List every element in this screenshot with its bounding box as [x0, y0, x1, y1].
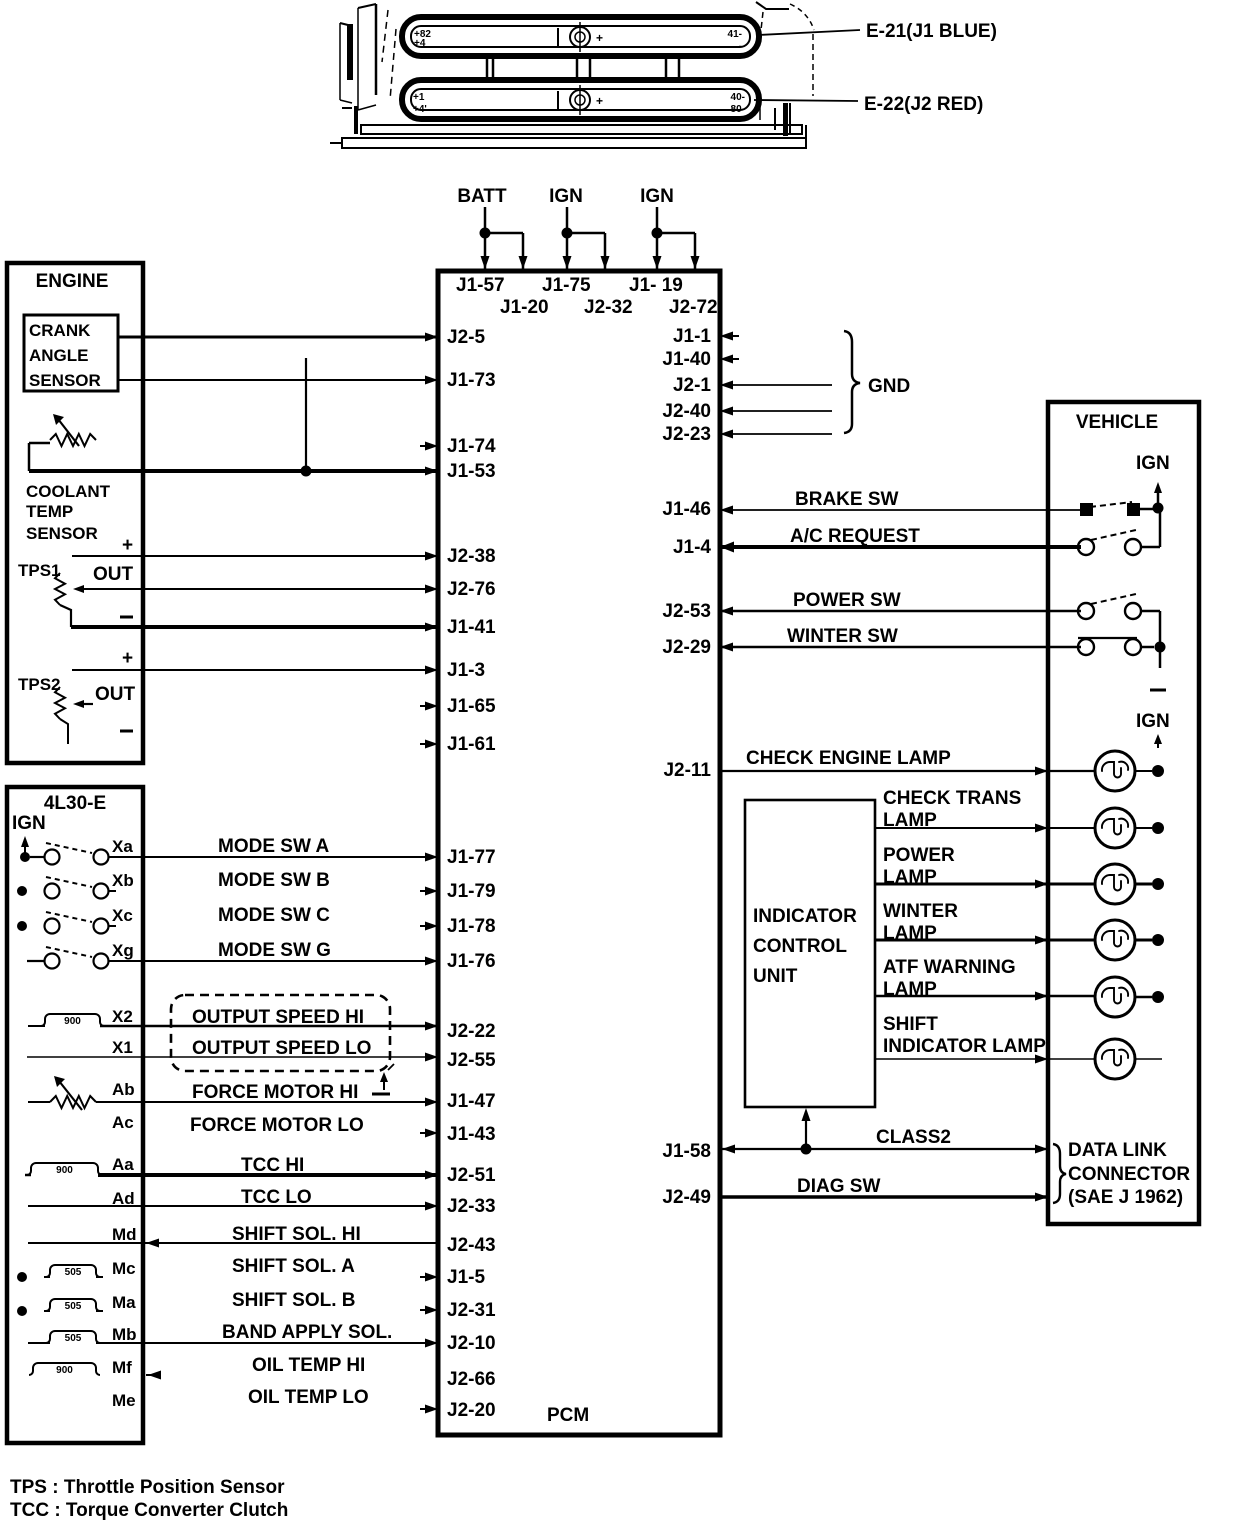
- svg-text:4L30-E: 4L30-E: [44, 793, 106, 814]
- svg-text:SENSOR: SENSOR: [29, 371, 101, 390]
- svg-text:TCC LO: TCC LO: [241, 1187, 312, 1208]
- wire band apply sol to J2-10: [96, 1339, 438, 1348]
- wire force motor hi to J1-47: [96, 1098, 438, 1107]
- svg-text:BATT: BATT: [457, 186, 507, 207]
- svg-text:TEMP: TEMP: [26, 502, 73, 521]
- svg-text:J1-53: J1-53: [447, 461, 496, 482]
- svg-text:Mb: Mb: [112, 1325, 137, 1344]
- svg-text:J1-74: J1-74: [447, 436, 496, 457]
- leader line E-22: [754, 100, 858, 101]
- svg-text:BAND APPLY SOL.: BAND APPLY SOL.: [222, 1322, 392, 1343]
- svg-text:J2-10: J2-10: [447, 1333, 496, 1354]
- connector E-22 (J2) body: [402, 80, 759, 119]
- svg-text:J1-78: J1-78: [447, 916, 496, 937]
- label FORCE MOTOR HI: [192, 1082, 390, 1103]
- wire shift sol hi from J2-43: [28, 1239, 438, 1248]
- data link connector brace: [1053, 1144, 1066, 1203]
- svg-text:INDICATOR: INDICATOR: [753, 906, 857, 927]
- wire power switch to J2-53: [720, 607, 1081, 616]
- wire TPS1 wiper to J2-76: [80, 585, 438, 594]
- svg-text:COOLANT: COOLANT: [26, 482, 111, 501]
- shift solenoid B coil (505): [17, 1299, 103, 1316]
- svg-text:J1-77: J1-77: [447, 847, 496, 868]
- svg-text:J1-3: J1-3: [447, 660, 485, 681]
- svg-text:+4': +4': [413, 104, 427, 115]
- switch Xa (mode switch A): [20, 837, 133, 865]
- svg-text:J2-66: J2-66: [447, 1369, 496, 1390]
- svg-text:+: +: [596, 94, 603, 108]
- svg-text:+: +: [122, 535, 133, 556]
- wire TPS1 - to J1-41: [71, 623, 438, 632]
- wire output speed hi to J2-22: [100, 1022, 438, 1031]
- svg-text:J1-65: J1-65: [447, 696, 496, 717]
- label INDICATOR CONTROL UNIT: [753, 906, 857, 987]
- svg-text:OUT: OUT: [95, 684, 136, 705]
- svg-text:J1-46: J1-46: [662, 499, 711, 520]
- node winter lamp IGN connection: [1152, 934, 1164, 946]
- wire CLASS2 J1-58 to data link connector: [720, 1145, 1048, 1154]
- stub arrow into PCM pin J1-78: [420, 922, 438, 931]
- shield ground arrow at dashed box: [380, 1064, 394, 1090]
- svg-text:-: -: [739, 41, 742, 52]
- node brake/IGN junction: [1153, 503, 1164, 514]
- wire power switch to common: [1141, 611, 1160, 647]
- wire TCC lo to J2-33: [28, 1202, 438, 1211]
- svg-text:BRAKE SW: BRAKE SW: [795, 489, 899, 510]
- wire common down-leg to minus: [1159, 647, 1162, 668]
- potentiometer TPS1: [55, 573, 84, 627]
- lamp power lamp: [1095, 864, 1135, 904]
- svg-text:DATA LINK: DATA LINK: [1068, 1140, 1167, 1161]
- svg-text:J1-47: J1-47: [447, 1091, 496, 1112]
- GND group brace: [844, 331, 860, 433]
- wire check engine lamp to IGN: [1135, 770, 1152, 772]
- wire DIAG SW J2-49 to data link connector: [720, 1193, 1048, 1202]
- wire CHECK TRANS lamp from indicator control unit: [875, 824, 1095, 833]
- svg-text:IGN: IGN: [12, 813, 46, 834]
- potentiometer TPS2: [55, 687, 93, 744]
- wire A/C request to J1-4: [720, 542, 1081, 553]
- svg-text:J2-76: J2-76: [447, 579, 496, 600]
- connector E-21 pin markings: [414, 28, 742, 52]
- node junction CLASS2: [801, 1144, 812, 1155]
- label COOLANT TEMP SENSOR: [26, 482, 111, 543]
- svg-text:CHECK TRANS: CHECK TRANS: [883, 788, 1021, 809]
- wire check trans lamp to IGN: [1135, 827, 1152, 829]
- svg-text:J1-20: J1-20: [500, 297, 549, 318]
- vertical branch wire x=306: [305, 358, 307, 471]
- svg-text:CONNECTOR: CONNECTOR: [1068, 1164, 1190, 1185]
- svg-text:505: 505: [65, 1267, 82, 1278]
- svg-text:E-21(J1 BLUE): E-21(J1 BLUE): [866, 21, 997, 42]
- stub arrow into PCM pin J1-79: [420, 887, 438, 896]
- switch Xb (mode switch B): [17, 871, 134, 899]
- svg-text:POWER SW: POWER SW: [793, 590, 901, 611]
- svg-text:TCC : Torque Converter Clutch: TCC : Torque Converter Clutch: [10, 1500, 288, 1521]
- svg-text:J1-4: J1-4: [673, 537, 711, 558]
- svg-text:ATF WARNING: ATF WARNING: [883, 957, 1016, 978]
- svg-text:POWER: POWER: [883, 845, 955, 866]
- svg-text:WINTER: WINTER: [883, 901, 958, 922]
- svg-text:Xc: Xc: [112, 906, 133, 925]
- dashed group box OUTPUT SPEED: [171, 995, 390, 1071]
- svg-text:E-22(J2 RED): E-22(J2 RED): [864, 94, 983, 115]
- svg-text:PCM: PCM: [547, 1405, 589, 1426]
- label CHECK TRANS LAMP: [883, 788, 1021, 831]
- stub arrow into PCM pin J2-20: [420, 1405, 438, 1414]
- svg-text:MODE SW B: MODE SW B: [218, 870, 330, 891]
- label WINTER LAMP: [883, 901, 958, 944]
- stub arrow into PCM pin J1-43: [420, 1129, 438, 1138]
- svg-text:Md: Md: [112, 1225, 137, 1244]
- node junction on J1-53 wire: [301, 466, 312, 477]
- switch Xc (mode switch C): [17, 906, 133, 934]
- IGN arrow to mode switch common: [21, 836, 29, 855]
- node check engine lamp IGN connection: [1152, 765, 1164, 777]
- svg-text:Mf: Mf: [112, 1358, 132, 1377]
- svg-text:J2-5: J2-5: [447, 327, 485, 348]
- wire crank sensor to J1-73: [118, 376, 438, 385]
- svg-text:IGN: IGN: [640, 186, 674, 207]
- wire check engine lamp from J2-11: [720, 767, 1095, 776]
- label POWER LAMP: [883, 845, 955, 888]
- speed sensor coil X2 (900): [28, 1014, 104, 1027]
- svg-text:SHIFT: SHIFT: [883, 1014, 938, 1035]
- arrow oil temp hi into 4L30-E: [146, 1371, 161, 1380]
- svg-text:J2-11: J2-11: [663, 760, 711, 781]
- PCM unit case sketch right side: [756, 2, 814, 136]
- svg-text:Xb: Xb: [112, 871, 134, 890]
- band apply solenoid coil (505): [28, 1331, 100, 1344]
- svg-text:IGN: IGN: [1136, 711, 1170, 732]
- svg-text:J2-40: J2-40: [662, 401, 711, 422]
- svg-text:J2-22: J2-22: [447, 1021, 496, 1042]
- svg-text:J1-75: J1-75: [542, 275, 591, 296]
- stub arrow into PCM pin J1-40: [720, 355, 739, 364]
- svg-text:505: 505: [65, 1301, 82, 1312]
- svg-text:J2-31: J2-31: [447, 1300, 496, 1321]
- label ATF WARNING LAMP: [883, 957, 1016, 1000]
- svg-text:J2-53: J2-53: [662, 601, 711, 622]
- svg-text:CHECK ENGINE LAMP: CHECK ENGINE LAMP: [746, 748, 951, 769]
- wire brake switch to IGN: [1140, 508, 1158, 511]
- svg-text:OUTPUT SPEED LO: OUTPUT SPEED LO: [192, 1038, 371, 1059]
- wire mode switch G to J1-76: [108, 957, 438, 966]
- wire ATF WARNING lamp from indicator control unit: [875, 992, 1095, 1001]
- node power lamp IGN connection: [1152, 878, 1164, 890]
- wire J2-23 to ground: [720, 430, 832, 439]
- label - (TPS1): [120, 616, 133, 619]
- svg-text:TPS2: TPS2: [18, 675, 61, 694]
- wire coolant sensor to J1-53: [29, 467, 438, 476]
- node power/winter junction: [1155, 642, 1166, 653]
- svg-text:SHIFT SOL. HI: SHIFT SOL. HI: [232, 1224, 361, 1245]
- svg-text:MODE SW A: MODE SW A: [218, 836, 329, 857]
- svg-text:TPS1: TPS1: [18, 561, 61, 580]
- svg-text:CLASS2: CLASS2: [876, 1127, 951, 1148]
- svg-text:J2-72: J2-72: [669, 297, 718, 318]
- brake switch: [1080, 502, 1140, 516]
- svg-text:Xa: Xa: [112, 837, 133, 856]
- lamp winter lamp: [1095, 920, 1135, 960]
- stub arrow into PCM pin J1-5: [420, 1273, 438, 1282]
- svg-text:900: 900: [56, 1365, 73, 1376]
- A/C request switch: [1078, 530, 1141, 555]
- node check trans lamp IGN connection: [1152, 822, 1164, 834]
- svg-text:X1: X1: [112, 1038, 133, 1057]
- leader line E-21: [758, 30, 860, 35]
- stub arrow into PCM pin J1-65: [420, 702, 438, 711]
- svg-text:SHIFT SOL. B: SHIFT SOL. B: [232, 1290, 356, 1311]
- svg-text:J1-79: J1-79: [447, 881, 496, 902]
- wire winter lamp to IGN: [1135, 939, 1152, 942]
- svg-text:J2-20: J2-20: [447, 1400, 496, 1421]
- wire POWER lamp from indicator control unit: [875, 880, 1095, 889]
- PCM case mounting bars: [330, 125, 806, 148]
- svg-text:+4: +4: [414, 38, 426, 49]
- svg-text:40-: 40-: [731, 92, 745, 103]
- svg-text:J2-43: J2-43: [447, 1235, 496, 1256]
- svg-text:OIL TEMP HI: OIL TEMP HI: [252, 1355, 365, 1376]
- wire output speed lo to J2-55: [27, 1053, 438, 1062]
- svg-text:900: 900: [56, 1165, 73, 1176]
- svg-text:DIAG SW: DIAG SW: [797, 1176, 880, 1197]
- svg-text:Ac: Ac: [112, 1113, 134, 1132]
- svg-text:(SAE J 1962): (SAE J 1962): [1068, 1187, 1183, 1208]
- svg-text:J1-43: J1-43: [447, 1124, 496, 1145]
- svg-text:ENGINE: ENGINE: [36, 271, 109, 292]
- svg-text:+: +: [122, 648, 133, 669]
- coolant temp sensor (thermistor): [29, 414, 96, 446]
- lamp check trans lamp: [1095, 808, 1135, 848]
- connector E-22 pin markings: [413, 91, 745, 115]
- svg-text:IGN: IGN: [1136, 453, 1170, 474]
- power feed BATT at x=485: [457, 186, 527, 269]
- svg-text:J1-58: J1-58: [662, 1141, 711, 1162]
- svg-text:SENSOR: SENSOR: [26, 524, 98, 543]
- label SHIFT INDICATOR LAMP: [883, 1014, 1046, 1057]
- svg-text:WINTER SW: WINTER SW: [787, 626, 898, 647]
- svg-text:J1-57: J1-57: [456, 275, 505, 296]
- wire TPS1 + to J2-38: [72, 552, 438, 561]
- stub arrow into PCM pin J1-1: [720, 332, 739, 341]
- svg-text:Xg: Xg: [112, 941, 134, 960]
- svg-text:Me: Me: [112, 1391, 136, 1410]
- ENGINE box: [7, 263, 143, 763]
- lamp ATF warning lamp: [1095, 977, 1135, 1017]
- svg-text:FORCE MOTOR HI: FORCE MOTOR HI: [192, 1082, 358, 1103]
- svg-text:J1-76: J1-76: [447, 951, 496, 972]
- svg-text:J2-23: J2-23: [662, 424, 711, 445]
- svg-text:TPS : Throttle Position Sensor: TPS : Throttle Position Sensor: [10, 1477, 285, 1498]
- svg-text:J2-38: J2-38: [447, 546, 496, 567]
- stub arrow into PCM pin J1-74: [420, 442, 438, 451]
- node ATF warning lamp IGN connection: [1152, 991, 1164, 1003]
- svg-text:J1-1: J1-1: [673, 326, 711, 347]
- svg-text:SHIFT SOL. A: SHIFT SOL. A: [232, 1256, 355, 1277]
- svg-text:CONTROL: CONTROL: [753, 936, 847, 957]
- svg-text:J1-5: J1-5: [447, 1267, 485, 1288]
- wire SHIFT lamp from indicator control unit: [875, 1055, 1095, 1064]
- svg-text:J1-41: J1-41: [447, 617, 496, 638]
- 4L30-E box: [7, 787, 143, 1443]
- wire J2-1 to ground: [720, 381, 832, 390]
- battery minus mark: [1150, 689, 1166, 692]
- svg-text:J2-29: J2-29: [662, 637, 711, 658]
- stub arrow into PCM pin J1-61: [420, 740, 438, 749]
- wire winter switch to common: [1141, 646, 1154, 649]
- label DATA LINK CONNECTOR (SAE J 1962): [1068, 1140, 1190, 1208]
- IGN arrow (lamps): [1154, 734, 1162, 748]
- connector E-21 center screw: [570, 22, 590, 52]
- wire WINTER lamp from indicator control unit: [875, 936, 1095, 945]
- svg-text:41-: 41-: [728, 29, 742, 40]
- svg-text:+1: +1: [413, 92, 425, 103]
- wire A/C switch to IGN junction: [1141, 510, 1160, 547]
- svg-text:GND: GND: [868, 376, 910, 397]
- wire TCC hi to J2-51: [98, 1171, 438, 1180]
- wire ATF warning lamp to IGN: [1135, 996, 1152, 998]
- power switch: [1078, 594, 1141, 619]
- label - (TPS2): [120, 730, 133, 733]
- wire shift indicator lamp to IGN: [1135, 1058, 1162, 1060]
- svg-text:OUT: OUT: [93, 564, 134, 585]
- label CRANK ANGLE SENSOR: [29, 321, 101, 390]
- wire mode switch A to J1-77: [108, 853, 438, 862]
- oil temp sensor coil (900): [29, 1363, 100, 1376]
- svg-text:MODE SW G: MODE SW G: [218, 940, 331, 961]
- PCM box: [438, 271, 720, 1435]
- TCC solenoid coil (900): [25, 1163, 102, 1176]
- power feed IGN at x=567: [549, 186, 609, 269]
- svg-text:900: 900: [64, 1016, 81, 1027]
- svg-text:J2-33: J2-33: [447, 1196, 496, 1217]
- svg-text:Ab: Ab: [112, 1080, 135, 1099]
- IGN feed arrow (vehicle): [1154, 482, 1162, 508]
- svg-text:CRANK: CRANK: [29, 321, 91, 340]
- svg-text:VEHICLE: VEHICLE: [1076, 412, 1158, 433]
- power feed IGN at x=657: [640, 186, 699, 269]
- svg-text:80-: 80-: [731, 104, 745, 115]
- svg-text:J1-61: J1-61: [447, 734, 496, 755]
- svg-text:J1-40: J1-40: [662, 349, 711, 370]
- svg-text:IGN: IGN: [549, 186, 583, 207]
- winter switch: [1078, 638, 1141, 655]
- connector E-21 (J1) body: [402, 17, 759, 56]
- stub arrow into PCM pin J2-31: [420, 1306, 438, 1315]
- svg-text:J2-49: J2-49: [662, 1187, 711, 1208]
- wire TPS2 + to J1-3: [72, 666, 438, 675]
- indicator control unit box: [745, 800, 875, 1107]
- shift solenoid A coil (505): [17, 1265, 103, 1282]
- svg-text:505: 505: [65, 1333, 82, 1344]
- svg-text:A/C REQUEST: A/C REQUEST: [790, 526, 920, 547]
- svg-text:J2-51: J2-51: [447, 1165, 496, 1186]
- svg-text:Mc: Mc: [112, 1259, 136, 1278]
- svg-text:UNIT: UNIT: [753, 966, 798, 987]
- svg-text:J1- 19: J1- 19: [629, 275, 683, 296]
- force motor solenoid (variable): [28, 1076, 96, 1110]
- svg-text:J2-55: J2-55: [447, 1050, 496, 1071]
- svg-text:FORCE MOTOR LO: FORCE MOTOR LO: [190, 1115, 364, 1136]
- svg-text:MODE SW C: MODE SW C: [218, 905, 330, 926]
- wire brake switch to J1-46: [720, 506, 1080, 515]
- wire winter switch to J2-29: [720, 643, 1081, 652]
- PCM unit case sketch left side: [340, 4, 396, 134]
- VEHICLE box: [1048, 402, 1199, 1224]
- svg-text:TCC HI: TCC HI: [241, 1155, 304, 1176]
- svg-text:INDICATOR LAMP: INDICATOR LAMP: [883, 1036, 1046, 1057]
- connector spacer bars: [487, 56, 679, 80]
- wire coolant sensor down-leg: [28, 443, 31, 471]
- svg-text:ANGLE: ANGLE: [29, 346, 89, 365]
- svg-text:J2-1: J2-1: [673, 375, 711, 396]
- svg-text:Ma: Ma: [112, 1293, 136, 1312]
- wire indicator control unit to CLASS2 bus: [802, 1108, 811, 1149]
- crank angle sensor box: [24, 315, 118, 391]
- lamp shift indicator lamp: [1095, 1039, 1135, 1079]
- svg-text:X2: X2: [112, 1007, 133, 1026]
- svg-text:J2-32: J2-32: [584, 297, 633, 318]
- connector E-22 center screw: [570, 85, 590, 115]
- wire power lamp to IGN: [1135, 883, 1152, 886]
- svg-text:+: +: [596, 31, 603, 45]
- wire crank sensor to J2-5: [118, 333, 438, 342]
- svg-text:OIL TEMP LO: OIL TEMP LO: [248, 1387, 369, 1408]
- svg-text:Aa: Aa: [112, 1155, 134, 1174]
- wire J2-40 to ground: [720, 407, 832, 416]
- lamp check engine lamp: [1095, 751, 1135, 791]
- switch Xg (mode switch common): [27, 941, 134, 969]
- svg-text:J1-73: J1-73: [447, 370, 496, 391]
